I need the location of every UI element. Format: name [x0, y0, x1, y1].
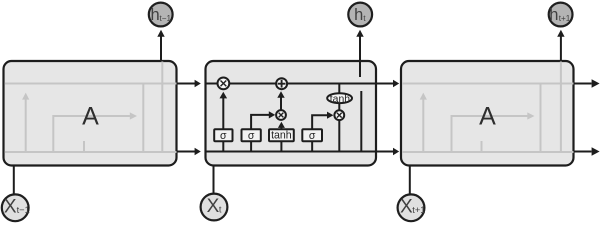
- svg-text:A: A: [82, 102, 99, 130]
- svg-text:σ: σ: [309, 130, 316, 142]
- svg-text:t−1: t−1: [160, 14, 172, 23]
- svg-text:t+1: t+1: [412, 205, 425, 215]
- svg-text:h: h: [151, 6, 160, 24]
- svg-text:A: A: [479, 102, 496, 130]
- svg-text:h: h: [354, 6, 363, 24]
- svg-text:t: t: [219, 205, 222, 215]
- svg-text:X: X: [4, 197, 17, 218]
- svg-text:t+1: t+1: [559, 14, 571, 23]
- svg-text:h: h: [549, 6, 558, 24]
- svg-text:σ: σ: [220, 130, 227, 142]
- svg-text:t−1: t−1: [17, 205, 30, 215]
- svg-text:tanh: tanh: [330, 94, 350, 105]
- svg-text:X: X: [400, 197, 413, 218]
- svg-text:σ: σ: [248, 130, 255, 142]
- svg-text:X: X: [207, 196, 220, 217]
- svg-text:tanh: tanh: [271, 130, 292, 142]
